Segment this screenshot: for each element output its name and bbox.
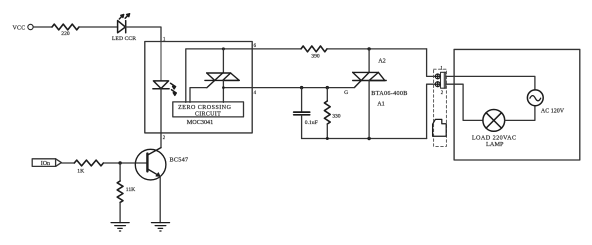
svg-text:220: 220 xyxy=(61,31,70,37)
svg-text:CIRCUIT: CIRCUIT xyxy=(195,112,221,118)
svg-text:2: 2 xyxy=(441,91,444,96)
wire pin6 net inside U1 xyxy=(186,49,252,103)
wire IOn to R 1K xyxy=(61,162,74,164)
wire R11K to ground xyxy=(119,202,121,222)
resistor R 1K xyxy=(74,160,103,166)
wire R390 to connector branch xyxy=(327,48,427,50)
wire junction to R11K xyxy=(119,163,121,181)
wire top rail to connector pin1 xyxy=(427,49,436,77)
resistor R390 xyxy=(301,46,327,52)
junction R330 tap xyxy=(326,86,329,89)
opto-isolator U1 box xyxy=(145,42,252,133)
svg-text:LED CCR: LED CCR xyxy=(112,36,136,42)
opto LED (inside U1) xyxy=(153,42,176,96)
ground (emitter) xyxy=(152,223,170,231)
svg-text:330: 330 xyxy=(332,113,341,119)
capacitor C1 xyxy=(294,88,310,139)
wire pin1 to AC source xyxy=(446,76,535,90)
node VCC terminal xyxy=(13,24,34,31)
ground (R11K) xyxy=(111,223,129,231)
LED D1 LED CCR xyxy=(118,14,130,33)
svg-text:0.1uF: 0.1uF xyxy=(305,120,318,126)
connector pin 1 symbol xyxy=(435,74,440,79)
junction base/R11K xyxy=(118,161,121,164)
junction MT2/pin6 xyxy=(222,47,225,50)
resistor R330 xyxy=(324,88,330,139)
wire opto pin2 down to Q1 collector xyxy=(160,89,162,148)
AC source V1 xyxy=(527,90,543,106)
wire R 1K to base xyxy=(103,162,147,164)
svg-text:BTA06-400B: BTA06-400B xyxy=(371,90,408,97)
svg-text:390: 390 xyxy=(311,54,320,60)
wire A1 vertical xyxy=(368,81,370,139)
wire bottom rail to connector pin2 xyxy=(427,84,436,138)
junction R330 bottom xyxy=(326,137,329,140)
svg-text:A2: A2 xyxy=(378,58,386,65)
load box xyxy=(454,49,580,160)
wire VCC to R220 xyxy=(33,26,52,28)
wire opto MT1 to ZCC and pin4 xyxy=(222,80,224,102)
wire pin2 to lamp xyxy=(446,84,483,120)
svg-text:G: G xyxy=(344,90,348,96)
svg-text:MOC3041: MOC3041 xyxy=(187,119,213,126)
svg-text:11K: 11K xyxy=(126,187,135,193)
wire emitter down xyxy=(159,176,161,222)
connector J1 polarity glyph xyxy=(433,119,447,136)
wire A2 vertical xyxy=(368,49,370,73)
junction A2 xyxy=(367,47,370,50)
svg-text:4: 4 xyxy=(254,91,257,96)
resistor R220 xyxy=(52,24,79,30)
wire bottom rail xyxy=(302,138,427,140)
svg-text:BC547: BC547 xyxy=(170,157,189,164)
svg-text:1K: 1K xyxy=(77,169,84,175)
wire pin4 to gate xyxy=(252,87,354,89)
lamp LOAD xyxy=(483,110,505,132)
ZCC box ZERO CROSSING CIRCUIT xyxy=(173,102,244,118)
wire R220 to LED xyxy=(79,26,118,28)
connector pin 2 symbol xyxy=(435,82,440,87)
wire lamp to AC source xyxy=(505,106,535,121)
input tag IOn xyxy=(32,159,61,167)
svg-text:VCC: VCC xyxy=(13,25,26,31)
wire opto gate to ZCC xyxy=(190,88,207,103)
triac Q2 BTA06-400B xyxy=(353,72,387,87)
svg-text:A1: A1 xyxy=(377,100,385,107)
connector J1 body xyxy=(441,72,446,88)
svg-text:ZERO CROSSING: ZERO CROSSING xyxy=(178,105,232,111)
opto triac (inside U1) xyxy=(205,73,239,88)
junction A1 bottom xyxy=(367,137,370,140)
svg-text:IOn: IOn xyxy=(41,161,50,167)
junction cap tap xyxy=(300,86,303,89)
connector J1 dashed outline xyxy=(434,69,447,146)
svg-text:1: 1 xyxy=(440,67,443,72)
wire LED to opto pin1 xyxy=(126,27,161,42)
svg-text:2: 2 xyxy=(163,136,166,141)
resistor R11K xyxy=(117,181,123,202)
wire MT2 xyxy=(222,49,224,73)
wire pin6 to R390 xyxy=(252,48,301,50)
transistor Q1 BC547 xyxy=(135,148,166,180)
svg-text:AC 120V: AC 120V xyxy=(541,109,565,115)
svg-text:LAMP: LAMP xyxy=(486,141,504,148)
